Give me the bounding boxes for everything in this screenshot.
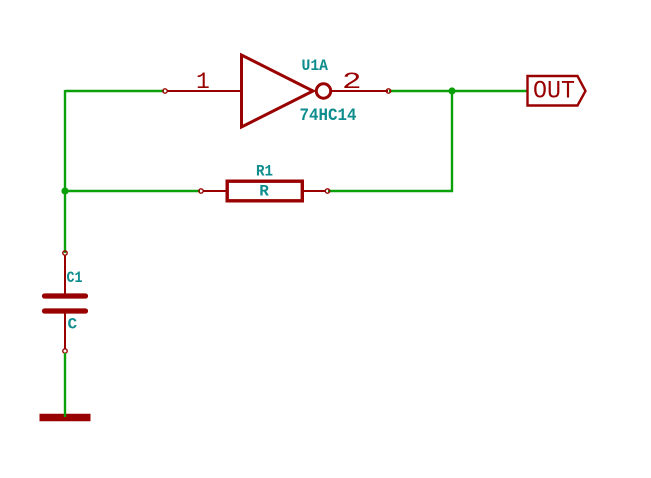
svg-text:R: R — [259, 183, 269, 201]
svg-text:74HC14: 74HC14 — [300, 106, 357, 126]
svg-text:2: 2 — [342, 69, 362, 95]
svg-text:U1A: U1A — [302, 57, 329, 75]
svg-text:1: 1 — [196, 69, 210, 95]
svg-text:OUT: OUT — [533, 77, 575, 106]
svg-text:R1: R1 — [256, 163, 273, 181]
svg-text:C1: C1 — [67, 269, 83, 287]
svg-text:C: C — [68, 316, 78, 334]
